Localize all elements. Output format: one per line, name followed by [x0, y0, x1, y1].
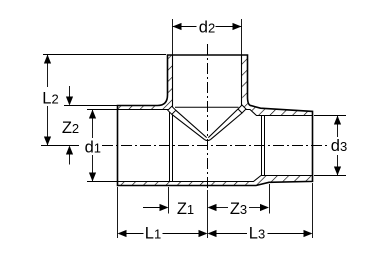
- d3 arrow down: [334, 167, 341, 176]
- left socket stop line 1: [169, 110, 171, 182]
- outer contour of tee fitting: [118, 55, 313, 186]
- left socket stop line 2: [172, 115, 174, 182]
- L2 arrow down: [44, 137, 51, 146]
- svg-text:d2: d2: [199, 19, 215, 37]
- d2 extension line left: [172, 19, 174, 55]
- right junction diamond: [238, 105, 246, 113]
- d2 extension line right: [241, 19, 243, 55]
- Z1/Z3 shared arrow at centerline (pointing left): [208, 204, 217, 211]
- hatched wall: left socket top band and branch left wall: [118, 55, 173, 110]
- left junction diamond: [168, 106, 176, 114]
- horizontal centerline of run: [102, 145, 327, 147]
- L3 dimension line and arrows: [208, 230, 217, 237]
- Z1 left arrow (outside, pointing right): [143, 207, 160, 209]
- extension lines right stop (Z3): [269, 184, 271, 214]
- L1 dimension line and arrows: [118, 230, 127, 237]
- Z2 top extension line: [64, 105, 117, 107]
- svg-text:d1: d1: [85, 139, 101, 157]
- inner bore top line, left socket: [118, 109, 171, 111]
- branch inner wall right: [241, 55, 243, 106]
- inner bore bottom line of run: [118, 176, 313, 182]
- d1 bottom extension line: [87, 181, 118, 183]
- hatched wall: bottom band of run: [118, 176, 313, 186]
- V cone right inner line: [211, 113, 243, 140]
- extension line left end (L1): [117, 187, 119, 238]
- centerline-level extension line left: [41, 145, 79, 147]
- L2 dimension line: [47, 55, 49, 88]
- svg-text:L2: L2: [42, 90, 58, 108]
- branch socket stop shelf: [175, 106, 239, 108]
- d2 arrow right: [233, 23, 242, 30]
- svg-text:Z1: Z1: [177, 200, 194, 218]
- d1 arrow down: [89, 173, 96, 182]
- Z3 right arrow (pointing right): [249, 207, 260, 209]
- svg-text:Z2: Z2: [62, 119, 79, 137]
- extension line left stop (Z1): [168, 187, 170, 214]
- svg-text:Z3: Z3: [230, 200, 247, 218]
- d1 arrow up: [89, 110, 96, 119]
- d3 arrow up: [334, 116, 341, 125]
- extension line right end (L3): [312, 183, 314, 238]
- branch inner wall left: [172, 55, 174, 107]
- Z2 upper arrow (outside, pointing down): [69, 86, 71, 97]
- L2 arrow up: [44, 55, 51, 64]
- Z2 lower arrow (outside, pointing up): [69, 155, 71, 165]
- d2 arrow left: [173, 23, 182, 30]
- V cone right outer line: [208, 109, 238, 138]
- V cone left outer line: [176, 110, 207, 137]
- right socket stop line 2: [264, 116, 266, 176]
- d1 dimension line: [92, 110, 94, 139]
- d1 top extension line: [87, 109, 118, 111]
- svg-text:d3: d3: [331, 137, 347, 155]
- V cone rounded tip: [205, 140, 211, 141]
- inner bore top line, right socket: [243, 110, 313, 116]
- extension line center: [207, 190, 209, 238]
- d3 bottom extension line: [314, 175, 346, 177]
- svg-text:L3: L3: [249, 224, 265, 242]
- V cone left inner line: [172, 114, 205, 139]
- d3 top extension line: [314, 115, 346, 117]
- vertical centerline of branch: [207, 44, 209, 190]
- d3 dimension line: [337, 116, 339, 138]
- svg-text:L1: L1: [145, 224, 161, 242]
- L2 top extension line: [43, 54, 166, 56]
- right socket stop line 1: [261, 116, 263, 176]
- hatched wall: branch right wall and right socket top band: [242, 55, 313, 116]
- d2 dimension line: [173, 26, 197, 28]
